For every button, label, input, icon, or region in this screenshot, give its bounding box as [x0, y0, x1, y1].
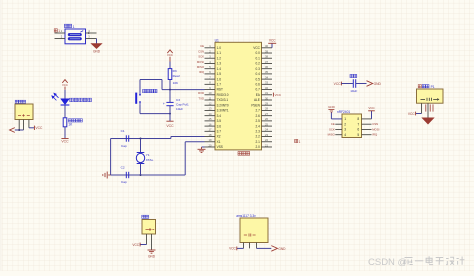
MCU U1 right pin 22 (2.1) — [262, 141, 273, 143]
MCU U1 left pin 1 (1.0) — [205, 47, 216, 49]
svg-text:4: 4 — [344, 133, 346, 137]
MCU U1 left pin 6 (1.5) — [205, 73, 216, 75]
push button S1 复位按键 — [135, 93, 137, 104]
svg-text:ALE: ALE — [254, 98, 260, 102]
power port VCC above U1 — [268, 42, 276, 44]
svg-text:RST: RST — [217, 88, 223, 92]
wire U1 VCC pin 40 up — [271, 43, 273, 47]
MCU U1 left pin 5 (1.4) — [205, 68, 216, 70]
svg-text:34: 34 — [265, 75, 268, 79]
svg-text:14: 14 — [209, 112, 212, 116]
connector J1 pin 2 wire — [55, 38, 66, 40]
MCU U1 left pin 17 (3.7) — [205, 130, 216, 132]
U2 pin 5 wire — [362, 134, 372, 136]
wire crystal bottom rail — [111, 174, 186, 176]
svg-text:2.2: 2.2 — [256, 135, 261, 139]
resistor R3 value 10K — [173, 81, 179, 85]
wire C3 to power port — [169, 106, 171, 114]
capacitor C1 comment Cap — [121, 144, 127, 148]
svg-text:15: 15 — [209, 117, 212, 121]
connector J1 inner contact bar 1 — [68, 33, 82, 36]
wire crystal left rail down — [110, 139, 112, 176]
ground arrow left of power jack — [10, 128, 15, 133]
svg-text:1.7: 1.7 — [217, 82, 222, 86]
buzzer pin designators (vertical) — [426, 104, 433, 111]
socket pin 1 wire — [146, 234, 148, 245]
wire VCC to LED anode — [64, 90, 66, 99]
regulator pin 1 wire — [243, 243, 245, 249]
resistor R2 label 限流电阻 — [68, 119, 82, 122]
ground symbol left of crystal — [108, 174, 110, 176]
capacitor C4 value 10uF — [350, 89, 357, 93]
svg-text:PSEN: PSEN — [251, 103, 260, 107]
capacitor C2 designator — [121, 165, 125, 169]
svg-text:6: 6 — [357, 128, 359, 132]
wire buzzer pin1 to VCC — [416, 113, 422, 115]
connector J1 designator label 接插1 — [64, 24, 71, 27]
MCU U1 left pin 20 (VSS) — [205, 146, 216, 148]
resistor R2 value 1K — [68, 123, 73, 127]
wire resistor R2 to power port — [64, 127, 66, 139]
svg-text:2.3: 2.3 — [256, 129, 261, 133]
svg-text:1.0: 1.0 — [217, 46, 222, 50]
ground GND below J1 (signal ground triangle) — [92, 44, 102, 49]
svg-text:0.5: 0.5 — [256, 77, 261, 81]
connector J1 pin 4 wire — [86, 32, 97, 34]
U2 pin 7 wire — [362, 123, 372, 125]
MCU U1 left pin 9 (RST) — [205, 89, 216, 91]
svg-text:22: 22 — [265, 138, 268, 142]
wire button bottom pin down — [139, 104, 141, 113]
svg-text:VCC: VCC — [132, 243, 139, 247]
svg-text:GND: GND — [148, 254, 156, 258]
svg-text:23: 23 — [265, 133, 268, 137]
svg-text:+: + — [163, 102, 165, 106]
svg-text:3.2/INT0: 3.2/INT0 — [217, 103, 229, 107]
svg-text:P1: P1 — [431, 85, 435, 89]
socket internal marks — [146, 228, 155, 231]
power port VCC at buzzer — [415, 112, 417, 116]
svg-text:28: 28 — [265, 107, 268, 111]
MCU U1 right pin 28 (2.7) — [262, 109, 273, 111]
power jack internal contacts — [18, 114, 30, 116]
MCU U1 left pin 2 (1.1) — [205, 52, 216, 54]
MCU U1 right pin 29 (PSEN) — [262, 104, 273, 106]
svg-text:3.5: 3.5 — [217, 119, 222, 123]
svg-text:35: 35 — [265, 70, 268, 74]
buzzer pin 2 wire — [427, 103, 429, 118]
svg-text:16: 16 — [209, 122, 212, 126]
svg-text:VCC: VCC — [167, 53, 173, 57]
net label CE on U1 pin 1 — [200, 44, 204, 48]
svg-text:38: 38 — [265, 55, 268, 59]
svg-text:2.1: 2.1 — [256, 140, 261, 144]
svg-text:21: 21 — [265, 143, 268, 147]
socket body — [142, 220, 156, 235]
buzzer pin 1 wire — [421, 103, 423, 113]
svg-text:18: 18 — [209, 133, 212, 137]
svg-text:17: 17 — [209, 128, 212, 132]
svg-text:0.0: 0.0 — [256, 51, 261, 55]
power port GND arrow right of C4 — [367, 81, 373, 87]
svg-text:MISO: MISO — [328, 133, 336, 137]
MCU U1 left pin 7 (1.6) — [205, 78, 216, 80]
crystal Y1 designator — [146, 153, 150, 157]
connector J1 inner contact bar 2 — [68, 37, 82, 40]
capacitor C3 Cap Pol1 10uF — [166, 101, 173, 103]
crystal Y1 XTAL — [137, 152, 145, 154]
ground below socket — [148, 249, 156, 251]
connector J1 shield mark — [80, 31, 83, 33]
connector J1 body — [65, 29, 86, 44]
svg-text:RXD/3.0: RXD/3.0 — [217, 93, 229, 97]
svg-text:2.4: 2.4 — [256, 124, 261, 128]
svg-text:MOSI: MOSI — [197, 60, 204, 64]
resistor R3 Res2 10K — [168, 69, 172, 80]
svg-text:25: 25 — [265, 122, 268, 126]
power jack body — [15, 104, 33, 120]
svg-text:2.0: 2.0 — [256, 145, 261, 149]
svg-text:VCC: VCC — [253, 46, 260, 50]
svg-text:40: 40 — [265, 44, 268, 48]
wire jack pins to ground arrow — [15, 129, 24, 131]
svg-text:RXD: RXD — [198, 91, 204, 95]
wire jack pin3 to VCC — [29, 127, 34, 129]
net label SCK on U1 pin 3 — [198, 55, 204, 59]
net label MISO on U2 pin 4 — [328, 133, 336, 137]
power jack pin 2 wire — [23, 120, 25, 131]
buzzer body — [417, 89, 444, 103]
svg-text:nRF2401: nRF2401 — [337, 110, 350, 114]
MCU U1 left pin 3 (1.2) — [205, 57, 216, 59]
connector J1 pin 1 wire — [55, 32, 66, 34]
ground at U1 VSS pin 20 — [202, 146, 205, 148]
svg-text:Cap: Cap — [121, 144, 127, 148]
svg-text:C3: C3 — [176, 98, 180, 102]
MCU U1 right pin 32 (0.7) — [262, 89, 273, 91]
regulator label ams1117 3.3v — [236, 214, 256, 218]
MCU U1 right pin 37 (0.2) — [262, 62, 273, 64]
MCU U1 left pin 12 (3.2/INT0) — [205, 104, 216, 106]
wire J1 pin 3 to ground — [96, 39, 98, 44]
wire R3 to RST node — [169, 80, 171, 90]
svg-text:2: 2 — [344, 122, 346, 126]
MCU U1 comment 单片机 — [238, 152, 250, 156]
svg-text:0.1: 0.1 — [256, 56, 261, 60]
MCU U1 left pin 18 (X2) — [205, 136, 216, 138]
svg-text:1.5: 1.5 — [217, 72, 222, 76]
svg-text:2.5: 2.5 — [256, 119, 261, 123]
svg-text:1: 1 — [299, 140, 301, 144]
capacitor C3 comment Cap Pol1 — [176, 103, 189, 107]
svg-text:TXD/3.1: TXD/3.1 — [217, 98, 229, 102]
power port VCC at U1 EA pin — [272, 93, 274, 97]
svg-text:X1: X1 — [217, 140, 221, 144]
svg-text:10K: 10K — [173, 81, 179, 85]
MCU U1 left pin 10 (RXD/3.0) — [205, 94, 216, 96]
regulator pin 3 wire — [256, 243, 258, 249]
svg-text:MISO: MISO — [197, 65, 205, 69]
junction below C3 — [169, 113, 171, 115]
junction crystal bottom — [140, 174, 142, 176]
MCU U1 left pin 11 (TXD/3.1) — [205, 99, 216, 101]
svg-text:VCC: VCC — [334, 82, 342, 86]
U2 pin 4 wire — [335, 134, 342, 136]
MCU U1 body — [215, 42, 262, 150]
capacitor C3 designator — [176, 98, 180, 102]
net label MOSI on U2 pin 6 — [372, 128, 379, 132]
RF module U2 label nRF2401 — [337, 110, 350, 114]
svg-text:19: 19 — [209, 138, 212, 142]
MCU U1 left pin 15 (3.5) — [205, 120, 216, 122]
svg-text:VSS: VSS — [217, 145, 223, 149]
MCU U1 right pin 40 (VCC) — [262, 47, 273, 49]
net label MISO on U1 pin 5 — [197, 65, 205, 69]
svg-text:IRQ: IRQ — [199, 70, 205, 74]
capacitor C3 value 10uF — [176, 107, 183, 111]
svg-text:8: 8 — [357, 117, 359, 121]
svg-text:5: 5 — [357, 133, 359, 137]
svg-text:GND: GND — [328, 105, 336, 109]
crystal Y1 comment XTAL — [146, 158, 154, 162]
svg-text:27: 27 — [265, 112, 268, 116]
svg-text:Cap Pol1: Cap Pol1 — [176, 103, 189, 107]
svg-text:3.7: 3.7 — [217, 129, 222, 133]
wire U2 pin1 to GND — [330, 113, 332, 119]
svg-text:IRQ: IRQ — [372, 133, 378, 137]
svg-text:CSDN @: CSDN @ — [368, 257, 407, 268]
net label TXD on U1 pin 11 — [198, 96, 204, 100]
svg-text:GND: GND — [93, 50, 101, 54]
svg-text:VCC: VCC — [368, 106, 375, 110]
svg-text:31: 31 — [265, 91, 268, 95]
capacitor C1 Cap — [125, 135, 127, 141]
resistor R3 comment Res2 — [173, 74, 181, 78]
capacitor C4 label 电容 — [350, 74, 357, 77]
wire button top pin — [139, 80, 141, 93]
svg-text:37: 37 — [265, 60, 268, 64]
junction crystal top — [140, 138, 142, 140]
svg-text:33: 33 — [265, 81, 268, 85]
svg-text:VCC: VCC — [61, 140, 69, 144]
wire VCC to resistor R3 — [169, 62, 171, 69]
U2 pin 1 — [344, 117, 346, 121]
svg-text:3.4: 3.4 — [217, 114, 222, 118]
svg-text:12: 12 — [209, 102, 212, 106]
power port GND arrow at regulator — [271, 246, 277, 252]
power jack label 电源座 — [15, 100, 25, 103]
U2 pin 8 wire to VCC — [362, 118, 372, 120]
resistor R3 designator — [173, 69, 177, 73]
svg-text:20: 20 — [209, 143, 212, 147]
svg-text:3.6: 3.6 — [217, 124, 222, 128]
MCU U1 right pin 31 (EA) — [262, 94, 273, 96]
svg-text:3.3/INT1: 3.3/INT1 — [217, 109, 229, 113]
wire socket pin1 to VCC — [140, 244, 146, 246]
svg-text:VCC: VCC — [35, 126, 43, 130]
svg-text:1.6: 1.6 — [217, 77, 222, 81]
svg-text:3: 3 — [344, 128, 346, 132]
svg-text:36: 36 — [265, 65, 268, 69]
regulator body — [240, 218, 268, 243]
net label RXD on U1 pin 10 — [198, 91, 204, 95]
svg-text:2.7: 2.7 — [256, 109, 261, 113]
wire cap C4 to GND port — [356, 83, 367, 85]
svg-text:7: 7 — [357, 122, 359, 126]
MCU U1 designator — [215, 38, 219, 42]
LED D1 电源指示灯 — [61, 99, 70, 105]
resistor R2 限流电阻 1K — [63, 118, 67, 127]
wire RST node to MCU RST pin — [162, 89, 205, 91]
svg-text:1: 1 — [73, 25, 75, 29]
svg-text:13: 13 — [209, 107, 212, 111]
wire bottom rail up to X1 pin — [184, 142, 186, 175]
svg-text:CSN: CSN — [198, 49, 204, 53]
svg-text:TXD: TXD — [198, 96, 204, 100]
regulator pin 2 wire — [249, 243, 251, 249]
U2 pin 6 wire — [362, 129, 372, 131]
capacitor C4 电容 10uF — [352, 79, 354, 88]
wire LED cathode to resistor R2 — [64, 105, 66, 118]
net label IRQ on U1 pin 6 — [199, 70, 205, 74]
junction RST node — [169, 89, 171, 91]
button label 复位按键 — [143, 89, 157, 92]
svg-text:GND: GND — [278, 247, 286, 251]
wire RST node to capacitor C3 — [169, 90, 171, 103]
MCU U1 right pin 25 (2.4) — [262, 125, 273, 127]
power port VCC at decoupling cap — [334, 82, 342, 86]
MCU U1 right pin 39 (0.0) — [262, 52, 273, 54]
svg-text:24: 24 — [265, 128, 268, 132]
net label CSN on U1 pin 2 — [198, 49, 204, 53]
MCU U1 left pin 4 (1.3) — [205, 62, 216, 64]
wire regulator pin3 to GND — [257, 247, 272, 249]
ground GND above U2 pin 1 — [328, 105, 336, 109]
MCU U1 left pin 16 (3.6) — [205, 125, 216, 127]
svg-text:39: 39 — [265, 49, 268, 53]
socket label 电容 — [142, 215, 149, 218]
svg-text:30: 30 — [265, 96, 268, 100]
wire button top loop horizontal — [140, 79, 162, 81]
connector J1 pin 3 wire — [86, 38, 97, 40]
wire crystal stub top — [140, 139, 142, 153]
svg-text:ams1117 3.3v: ams1117 3.3v — [236, 214, 256, 218]
svg-text:0.2: 0.2 — [256, 62, 261, 66]
U2 pin 2 wire — [335, 123, 342, 125]
svg-text:SCK: SCK — [329, 128, 335, 132]
svg-text:26: 26 — [265, 117, 268, 121]
svg-text:VCC: VCC — [229, 247, 236, 251]
MCU U1 right pin 21 (2.0) — [262, 146, 273, 148]
power port VCC above U2 pin 8 — [368, 110, 375, 112]
buzzer label 蜂鸣器P1 — [418, 85, 421, 88]
capacitor C2 Cap — [125, 172, 127, 178]
svg-text:VCC: VCC — [166, 124, 174, 128]
MCU U1 right pin 33 (0.6) — [262, 83, 273, 85]
MCU U1 right pin 23 (2.2) — [262, 136, 273, 138]
svg-text:VCC: VCC — [275, 93, 282, 97]
capacitor C1 designator — [121, 129, 125, 133]
svg-text:32: 32 — [265, 86, 268, 90]
svg-text:Res2: Res2 — [173, 74, 181, 78]
buzzer internal graphic — [421, 98, 438, 101]
MCU U1 left pin 19 (X1) — [205, 141, 216, 143]
svg-text:MOSI: MOSI — [372, 128, 379, 132]
svg-text:Y1: Y1 — [146, 153, 150, 157]
MCU U1 right pin 36 (0.3) — [262, 68, 273, 70]
svg-text:Cap: Cap — [121, 180, 127, 184]
MCU U1 left pin 14 (3.4) — [205, 115, 216, 117]
power jack pin 3 wire — [28, 120, 30, 128]
svg-text:CE: CE — [331, 122, 335, 126]
MCU U1 right pin 35 (0.4) — [262, 73, 273, 75]
LED label 电源指示灯 — [70, 98, 92, 102]
svg-text:1.2: 1.2 — [217, 56, 222, 60]
power port VCC arrow above LED — [62, 80, 67, 83]
MCU U1 right pin 27 (2.6) — [262, 115, 273, 117]
svg-text:CSN: CSN — [372, 122, 378, 126]
svg-text:X2: X2 — [217, 135, 221, 139]
net label SCK on U2 pin 3 — [329, 128, 335, 132]
svg-text:10: 10 — [209, 91, 212, 95]
svg-text:C2: C2 — [121, 165, 125, 169]
socket pin 2 wire — [151, 234, 153, 250]
wire VCC to cap C4 — [341, 83, 353, 85]
svg-text:0.3: 0.3 — [256, 67, 261, 71]
MCU U1 right pin 26 (2.5) — [262, 120, 273, 122]
junction on jack ground wire — [18, 129, 20, 131]
svg-text:VCC: VCC — [62, 83, 68, 87]
MCU U1 right pin 34 (0.5) — [262, 78, 273, 80]
svg-text:SCK: SCK — [198, 55, 204, 59]
ground triangle below buzzer — [422, 118, 433, 124]
power port VCC below resistor R2 — [61, 138, 68, 140]
net label CE on U2 pin 2 — [331, 122, 335, 126]
U2 pin 3 wire — [335, 129, 342, 131]
svg-text:0.6: 0.6 — [256, 82, 261, 86]
svg-text:1.4: 1.4 — [217, 67, 222, 71]
power port VCC at regulator — [236, 247, 238, 251]
svg-text:0.7: 0.7 — [256, 88, 261, 92]
svg-text:CE: CE — [200, 44, 204, 48]
power port VCC arrow above R3 — [167, 50, 172, 53]
MCU U1 right pin 38 (0.1) — [262, 57, 273, 59]
net label CSN on U2 pin 7 — [372, 122, 378, 126]
svg-text:10uF: 10uF — [176, 107, 183, 111]
svg-text:GND: GND — [374, 82, 382, 86]
wire crystal top rail — [111, 138, 171, 140]
power port VCC below C3 — [166, 120, 173, 122]
RF module U2 body — [342, 114, 362, 138]
regulator internal marks — [244, 234, 256, 237]
wire jog to X2 pin — [170, 137, 172, 139]
svg-text:1: 1 — [344, 117, 346, 121]
svg-text:VCC: VCC — [269, 39, 276, 43]
svg-text:C1: C1 — [121, 129, 125, 133]
svg-text:XTAL: XTAL — [146, 158, 154, 162]
wire crystal stub bottom — [140, 164, 142, 176]
wire button loop vertical — [161, 80, 163, 90]
svg-text:0.4: 0.4 — [256, 72, 261, 76]
svg-text:1.3: 1.3 — [217, 62, 222, 66]
svg-text:10uF: 10uF — [350, 89, 357, 93]
MCU U1 left pin 8 (1.7) — [205, 83, 216, 85]
capacitor C2 comment Cap — [121, 180, 127, 184]
net label at U1 pin 22 — [295, 139, 298, 142]
svg-text:R3: R3 — [173, 69, 177, 73]
svg-text:1.1: 1.1 — [217, 51, 222, 55]
net label IRQ on U2 pin 5 — [372, 133, 378, 137]
